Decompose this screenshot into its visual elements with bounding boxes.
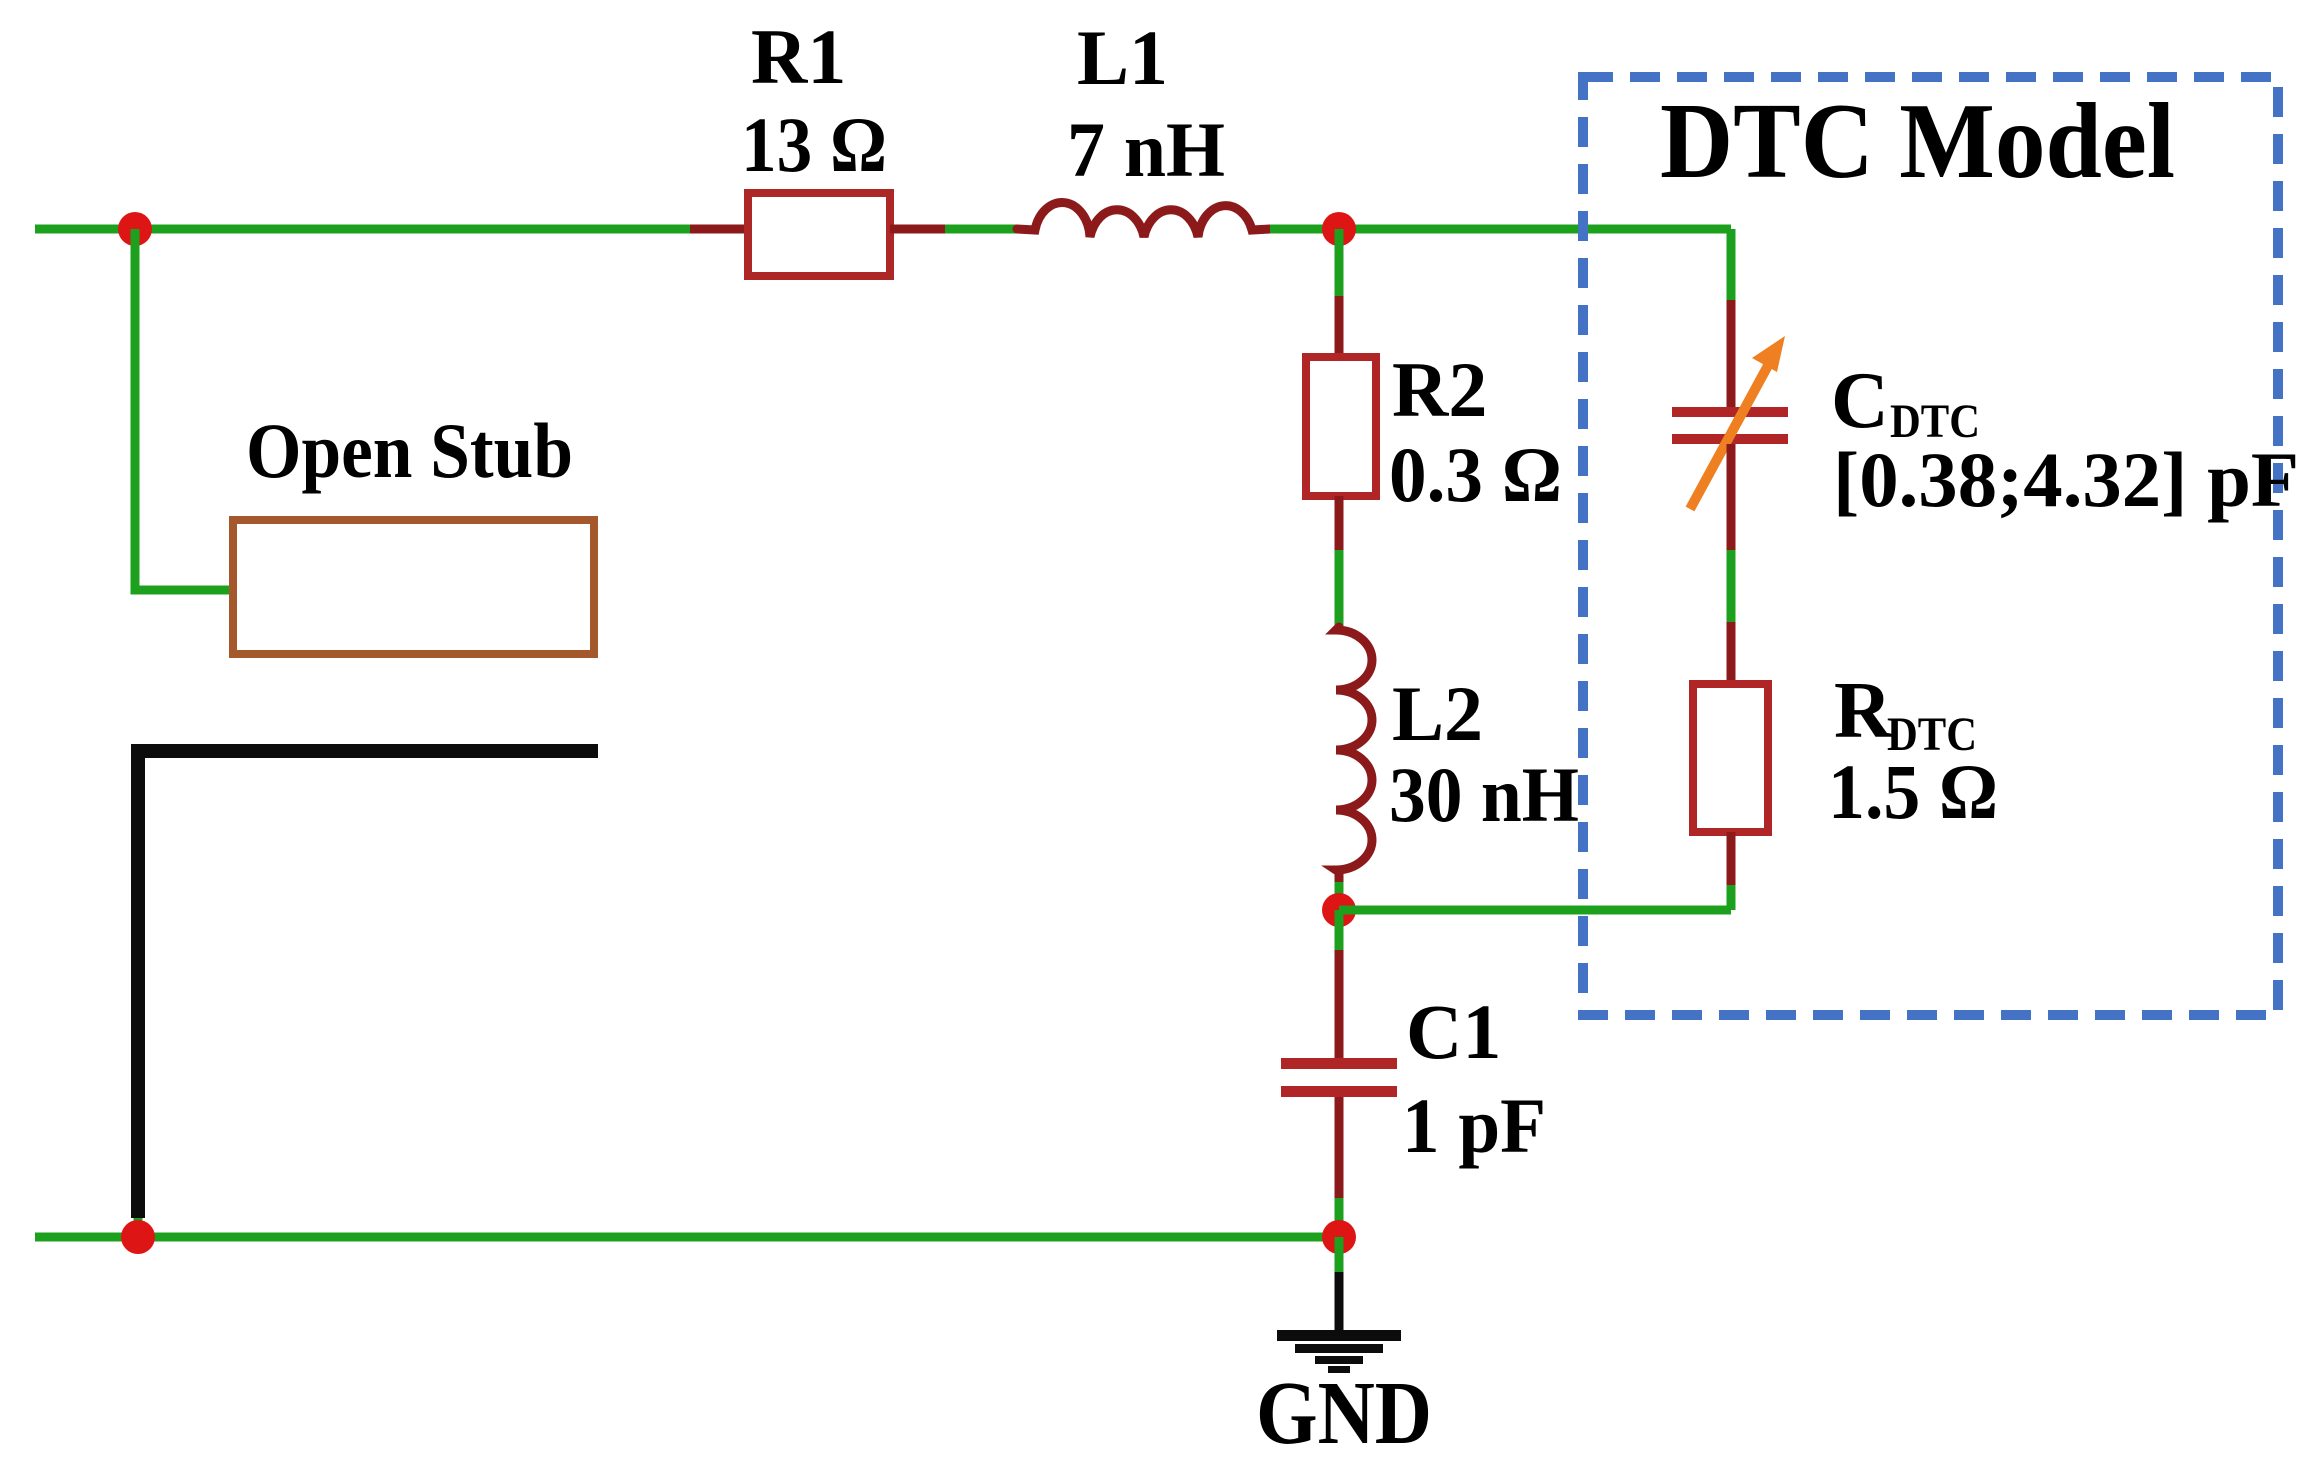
wire RDTC top lead bbox=[1727, 622, 1736, 684]
wire CDTC top lead bbox=[1727, 300, 1736, 412]
wire C1 to node (green) bbox=[1335, 1198, 1344, 1237]
resistor R2 bbox=[1306, 357, 1376, 496]
node bottom-left bbox=[121, 1220, 155, 1254]
wire C1 bottom lead bbox=[1335, 1097, 1344, 1198]
svg-text:C: C bbox=[1831, 357, 1889, 445]
wire R1 right lead bbox=[890, 225, 945, 234]
wire node to C1 (green then red) bbox=[1335, 910, 1344, 950]
node mid bbox=[1322, 893, 1356, 927]
svg-text:[0.38;4.32] pF: [0.38;4.32] pF bbox=[1833, 436, 2299, 523]
svg-text:GND: GND bbox=[1256, 1364, 1432, 1463]
capacitor CDTC (variable) bbox=[1672, 407, 1788, 444]
svg-text:1.5 Ω: 1.5 Ω bbox=[1828, 748, 1998, 835]
wire node to RDTC bottom (green) bbox=[1339, 906, 1731, 915]
node top-left bbox=[118, 212, 152, 246]
node bottom-center bbox=[1322, 1220, 1356, 1254]
open stub element bbox=[233, 520, 594, 654]
svg-text:R2: R2 bbox=[1392, 346, 1487, 433]
svg-text:1 pF: 1 pF bbox=[1402, 1082, 1546, 1169]
wire L2 to node (green) bbox=[1335, 882, 1344, 910]
inductor L2 bbox=[1336, 627, 1372, 882]
wire R1 left lead bbox=[690, 225, 748, 234]
svg-text:L1: L1 bbox=[1077, 14, 1168, 101]
svg-text:13 Ω: 13 Ω bbox=[741, 101, 887, 188]
svg-text:0.3 Ω: 0.3 Ω bbox=[1389, 431, 1562, 518]
wire node to ground (green) bbox=[1335, 1237, 1344, 1272]
svg-text:L2: L2 bbox=[1392, 670, 1483, 757]
svg-text:DTC Model: DTC Model bbox=[1660, 82, 2175, 201]
resistor R1 bbox=[748, 193, 890, 276]
wire RDTC to node rail (green) bbox=[1727, 885, 1736, 910]
DTC model box (blue dashed) bbox=[1583, 77, 2278, 1015]
wire L1 to corner (green) bbox=[1270, 225, 1731, 234]
svg-text:R: R bbox=[1834, 667, 1893, 755]
wire R2 to L2 (green) bbox=[1335, 550, 1344, 627]
wire CDTC to RDTC (green) bbox=[1727, 550, 1736, 622]
svg-text:7 nH: 7 nH bbox=[1067, 106, 1225, 193]
wire RDTC bottom lead bbox=[1727, 832, 1736, 885]
ground plane stub (black) bbox=[138, 751, 598, 1218]
wire C1 top lead bbox=[1335, 950, 1344, 1058]
arrow CDTC variable bbox=[1690, 336, 1785, 509]
wire R2 bottom lead bbox=[1335, 496, 1344, 550]
wire corner to CDTC (green then red) bbox=[1727, 229, 1736, 300]
inductor L1 bbox=[1017, 202, 1270, 237]
capacitor C1 bbox=[1281, 1058, 1397, 1097]
svg-text:R1: R1 bbox=[751, 13, 846, 100]
wire stub riser (green) bbox=[135, 229, 236, 590]
wire node to R2 (green then red) bbox=[1335, 229, 1344, 296]
svg-text:C1: C1 bbox=[1406, 988, 1501, 1075]
svg-text:Open Stub: Open Stub bbox=[246, 407, 573, 494]
wire top input (green) bbox=[35, 225, 690, 234]
wire CDTC bottom lead bbox=[1727, 444, 1736, 550]
ground GND bbox=[1277, 1272, 1401, 1373]
wire R2 top lead bbox=[1335, 296, 1344, 357]
wire between R1 and L1 (green) bbox=[945, 225, 1017, 234]
resistor RDTC bbox=[1693, 684, 1768, 832]
svg-text:30 nH: 30 nH bbox=[1389, 751, 1579, 838]
node top-center bbox=[1322, 212, 1356, 246]
wire bottom rail (green) bbox=[35, 1233, 1339, 1242]
wire black to node (green) bbox=[134, 1218, 143, 1237]
